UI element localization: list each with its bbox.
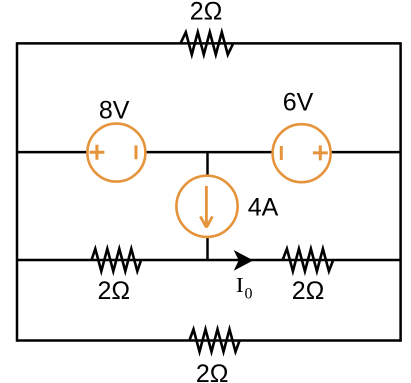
svg-text:0: 0 [245,286,253,303]
svg-text:I: I [236,273,244,297]
resistor R4 2ohm bottom [189,329,239,351]
current arrow I0 [234,250,254,271]
wire right border [399,42,402,342]
svg-text:6V: 6V [283,89,314,117]
resistor R1 2ohm top [181,32,234,54]
wire middle: 6V source to right border [331,151,401,154]
wire lower middle [17,259,401,262]
wire top [17,42,401,45]
V2 minus terminal [280,146,283,160]
wire left border [16,42,19,342]
svg-text:4A: 4A [248,194,279,222]
voltage source V2 6V [273,124,331,182]
svg-text:2Ω: 2Ω [196,360,229,383]
V1 minus terminal [135,145,138,159]
wire bottom [17,339,401,342]
svg-text:2Ω: 2Ω [190,0,223,25]
voltage source V1 8V [87,124,145,182]
current source I1 4A [176,176,237,237]
wire middle branch: junction to current source [206,152,209,260]
svg-text:8V: 8V [99,96,130,124]
svg-text:2Ω: 2Ω [98,277,131,305]
wire middle: 8V source to 6V source [146,151,273,154]
resistor R2 2ohm [92,249,142,271]
wire middle: left to 8V source [17,151,87,154]
V2 plus terminal [313,145,328,160]
V1 plus terminal [90,145,105,160]
I1 arrow [200,186,212,228]
svg-text:2Ω: 2Ω [292,277,325,305]
resistor R3 2ohm [283,249,334,271]
